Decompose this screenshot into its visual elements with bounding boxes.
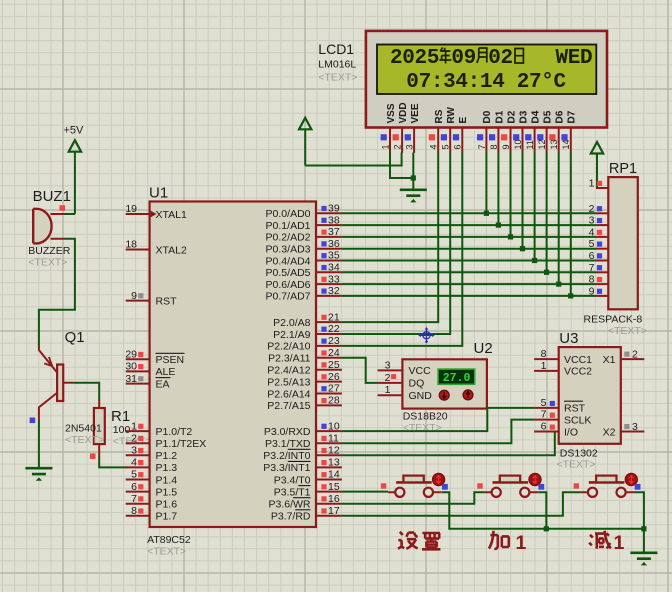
node origin marker	[418, 327, 435, 344]
button MINUS key	[574, 473, 641, 497]
svg-text:RW: RW	[446, 106, 457, 123]
RTC U3 DS1302	[557, 330, 621, 471]
U3 pin 1	[534, 360, 559, 372]
wire P3.6 to key PLUS	[342, 492, 485, 503]
U1 pin 25 P2.4/A12	[267, 359, 342, 377]
U2 up button	[463, 390, 473, 400]
svg-text:D4: D4	[530, 110, 541, 123]
svg-text:8: 8	[489, 144, 499, 149]
svg-text:P2.4/A12: P2.4/A12	[267, 365, 310, 377]
svg-text:30: 30	[125, 361, 137, 373]
svg-text:29: 29	[125, 349, 137, 361]
svg-text:1: 1	[589, 178, 595, 190]
svg-text:+5V: +5V	[64, 125, 85, 137]
svg-text:P0.5/AD5: P0.5/AD5	[266, 267, 311, 279]
U1 pin 8 P1.7	[126, 505, 178, 523]
button SET key	[381, 473, 448, 497]
svg-text:4: 4	[589, 226, 595, 238]
svg-text:5: 5	[541, 397, 547, 409]
svg-text:7: 7	[541, 409, 547, 421]
svg-text:28: 28	[328, 395, 340, 407]
svg-text:ALE: ALE	[156, 366, 176, 378]
svg-text:P3.5/T1: P3.5/T1	[274, 486, 311, 498]
ground (left)	[25, 468, 52, 481]
wire P0.7 to D7/RP1	[342, 153, 596, 299]
svg-text:<TEXT>: <TEXT>	[557, 459, 596, 471]
wire P0.3 to D3/RP1	[342, 153, 596, 252]
U1 pin 38 P0.1/AD1	[266, 214, 342, 232]
svg-text:P1.0/T2: P1.0/T2	[156, 426, 193, 438]
LCD text line2 time	[406, 71, 566, 94]
svg-text:6: 6	[541, 421, 547, 433]
wire P3.5 to key SET	[342, 491, 388, 493]
U1 pin 35 P0.4/AD4	[266, 250, 342, 268]
svg-text:1: 1	[614, 532, 625, 554]
svg-text:P2.0/A8: P2.0/A8	[273, 317, 311, 329]
U1 pin 39 P0.0/AD0	[266, 203, 342, 221]
svg-text:<TEXT>: <TEXT>	[147, 546, 186, 558]
svg-text:6: 6	[589, 250, 595, 262]
svg-text:D6: D6	[555, 110, 566, 123]
wire key MINUS right to ground bus	[635, 492, 647, 553]
wire Q1 collector to ground	[38, 420, 40, 468]
wire LCD VDD to +5V rail	[305, 153, 401, 166]
U2 down button	[439, 390, 449, 400]
U1 pin 5 P1.4	[126, 469, 178, 487]
LCD pin 8 D1	[489, 110, 505, 153]
RP1 pin 9	[589, 285, 609, 297]
wire P3.7 to key MINUS	[342, 492, 581, 516]
svg-text:12: 12	[537, 139, 547, 149]
svg-text:VCC2: VCC2	[564, 366, 592, 378]
svg-text:P0.1/AD1: P0.1/AD1	[266, 220, 311, 232]
RP1 pin 4	[589, 226, 609, 238]
LCD pin 5 RW	[441, 106, 457, 152]
svg-text:2: 2	[385, 372, 391, 384]
U1 pin 37 P0.2/AD2	[266, 226, 342, 244]
svg-text:P0.0/AD0: P0.0/AD0	[266, 208, 311, 220]
U2 pin 1	[378, 384, 403, 396]
svg-text:13: 13	[328, 457, 340, 469]
svg-text:<TEXT>: <TEXT>	[318, 72, 357, 84]
svg-text:5: 5	[441, 144, 451, 149]
svg-text:GND: GND	[409, 390, 433, 402]
wire P3.2 to U3 I/O	[342, 433, 555, 456]
svg-text:P0.3/AD3: P0.3/AD3	[266, 244, 311, 256]
svg-text:21: 21	[328, 311, 340, 323]
svg-text:BUZZER: BUZZER	[28, 245, 70, 257]
U1 pin 23 P2.2/A10	[267, 335, 342, 353]
power +5V (near LCD)	[299, 118, 311, 166]
IC U1 AT89C52	[147, 185, 316, 558]
U2 pin 2	[378, 372, 403, 384]
RP1 pin 1	[589, 178, 609, 190]
svg-text:38: 38	[328, 214, 340, 226]
svg-text:22: 22	[328, 323, 340, 335]
svg-text:26: 26	[328, 371, 340, 383]
resistor pack RP1 RESPACK-8	[584, 161, 648, 337]
U1 pin 9 RST	[126, 290, 177, 308]
svg-text:P3.1/TXD: P3.1/TXD	[265, 438, 311, 450]
svg-text:9: 9	[589, 285, 595, 297]
U1 pin 32 P0.7/AD7	[266, 285, 342, 303]
svg-text:5: 5	[589, 238, 595, 250]
svg-text:<TEXT>: <TEXT>	[28, 257, 67, 269]
ground (under LCD)	[400, 190, 427, 203]
svg-text:18: 18	[125, 239, 137, 251]
svg-text:19: 19	[125, 203, 137, 215]
RP1 pin 8	[589, 274, 609, 286]
svg-text:U3: U3	[559, 330, 578, 347]
svg-text:11: 11	[525, 140, 535, 149]
svg-text:XTAL2: XTAL2	[156, 244, 187, 256]
buzzer BUZ1	[28, 188, 71, 268]
button PLUS key	[477, 473, 544, 497]
svg-text:09: 09	[451, 47, 476, 70]
svg-text:9: 9	[131, 290, 137, 302]
U1 pin 34 P0.5/AD5	[266, 262, 342, 280]
svg-text:7: 7	[477, 144, 487, 149]
wire P3.0 to U3 RST	[342, 408, 534, 431]
svg-text:P3.0/RXD: P3.0/RXD	[264, 426, 311, 438]
svg-text:1: 1	[541, 360, 547, 372]
svg-text:37: 37	[328, 226, 340, 238]
svg-text:3: 3	[632, 421, 638, 433]
svg-text:P2.5/A13: P2.5/A13	[267, 376, 310, 388]
svg-text:1: 1	[385, 384, 391, 396]
LCD pin 10 D3	[513, 110, 529, 153]
svg-text:1: 1	[516, 532, 527, 554]
LCD pin 7 D0	[477, 110, 493, 153]
svg-text:P1.6: P1.6	[156, 499, 178, 511]
wire P0.5 to D5/RP1	[342, 153, 596, 275]
svg-text:D0: D0	[482, 110, 493, 123]
U3 pin 2	[621, 349, 645, 361]
svg-text:P1.2: P1.2	[156, 450, 178, 462]
U1 pin 16 P3.6/WR	[268, 493, 341, 511]
svg-text:P2.7/A15: P2.7/A15	[267, 400, 310, 412]
svg-text:17: 17	[328, 505, 340, 517]
LCD pin 11 D4	[525, 110, 541, 153]
U1 pin 19 XTAL1	[125, 203, 187, 221]
U1 pin 17 P3.7/RD	[271, 505, 342, 523]
U3 pin 6	[534, 421, 559, 433]
U1 pin 15 P3.5/T1	[274, 481, 342, 499]
svg-text:2: 2	[589, 203, 595, 215]
U3 pin 3	[621, 421, 645, 433]
svg-text:DS1302: DS1302	[560, 447, 598, 459]
svg-text:31: 31	[125, 373, 137, 385]
svg-text:D7: D7	[567, 110, 578, 123]
svg-text:1: 1	[380, 144, 390, 149]
U1 pin 7 P1.6	[126, 493, 178, 511]
svg-text:X1: X1	[603, 354, 616, 366]
LCD pin 2 VDD	[392, 102, 408, 152]
svg-text:AT89C52: AT89C52	[147, 534, 191, 546]
U1 pin 28 P2.7/A15	[267, 395, 342, 413]
svg-text:XTAL1: XTAL1	[156, 209, 187, 221]
wire P0.0 to D0/RP1	[342, 153, 596, 216]
svg-text:P1.1/T2EX: P1.1/T2EX	[156, 438, 207, 450]
svg-text:10: 10	[328, 420, 340, 432]
svg-text:P1.5: P1.5	[156, 486, 178, 498]
svg-text:7: 7	[131, 493, 137, 505]
U2 temperature display 27.0	[438, 369, 475, 385]
wire E to P2.2	[342, 153, 462, 346]
svg-text:P2.6/A14: P2.6/A14	[267, 388, 310, 400]
RP1 pin 7	[589, 262, 609, 274]
svg-text:8: 8	[131, 505, 137, 517]
svg-text:10: 10	[513, 139, 523, 149]
svg-text:14: 14	[328, 469, 340, 481]
svg-text:4: 4	[131, 457, 137, 469]
svg-text:P0.4/AD4: P0.4/AD4	[266, 255, 311, 267]
U1 pin 27 P2.6/A14	[267, 383, 342, 401]
svg-text:34: 34	[328, 262, 340, 274]
wire +5V to BUZ1 top	[65, 152, 75, 214]
U1 pin 26 P2.5/A13	[267, 371, 342, 389]
svg-text:Q1: Q1	[65, 329, 85, 346]
svg-text:2025: 2025	[390, 47, 439, 70]
svg-text:16: 16	[328, 493, 340, 505]
U2 pin 3	[378, 359, 403, 371]
wire RS to P2.0	[342, 153, 438, 323]
U1 pin 33 P0.6/AD6	[266, 273, 342, 291]
LCD text line1 date	[390, 47, 592, 70]
svg-text:RESPACK-8: RESPACK-8	[584, 314, 643, 326]
svg-text:100: 100	[113, 424, 131, 436]
svg-text:DS18B20: DS18B20	[403, 411, 448, 423]
LCD pin 13 D6	[549, 110, 565, 153]
svg-text:3: 3	[131, 445, 137, 457]
LCD LCD1 LM016L	[318, 31, 607, 128]
svg-text:6: 6	[131, 481, 137, 493]
LCD pin 6 E	[453, 117, 469, 153]
svg-text:25: 25	[328, 359, 340, 371]
svg-text:07:34:14 27°C: 07:34:14 27°C	[406, 71, 566, 94]
ground (bottom right)	[630, 553, 657, 566]
svg-text:P2.3/A11: P2.3/A11	[268, 353, 311, 365]
resistor R1 100	[90, 399, 152, 459]
label JIAN 1 (minus 1)	[589, 531, 611, 549]
svg-text:4: 4	[429, 144, 439, 149]
U1 pin 31 EA	[125, 373, 170, 391]
svg-text:3: 3	[589, 215, 595, 227]
wire R1 bottom to U1 P1.3	[99, 457, 128, 468]
svg-text:P1.3: P1.3	[156, 462, 178, 474]
svg-text:D1: D1	[494, 110, 505, 123]
U1 pin 22 P2.1/A9	[273, 323, 342, 341]
svg-text:23: 23	[328, 335, 340, 347]
svg-text:U2: U2	[474, 340, 493, 357]
svg-text:LCD1: LCD1	[318, 41, 354, 57]
wire key SET right to ground bus	[442, 492, 644, 529]
svg-text:WED: WED	[556, 47, 593, 70]
svg-text:<TEXT>: <TEXT>	[65, 434, 104, 446]
LCD pin 9 D2	[501, 110, 517, 153]
svg-text:33: 33	[328, 273, 340, 285]
svg-text:<TEXT>: <TEXT>	[608, 325, 647, 337]
U1 pin 11 P3.1/TXD	[265, 432, 342, 450]
U1 pin 18 XTAL2	[125, 239, 187, 257]
svg-text:02: 02	[488, 47, 513, 70]
RP1 pin 3	[589, 215, 609, 227]
svg-text:P0.6/AD6: P0.6/AD6	[266, 279, 311, 291]
svg-text:15: 15	[328, 481, 340, 493]
wire P2.3 to U2 DQ	[342, 358, 378, 383]
svg-text:P2.1/A9: P2.1/A9	[273, 329, 311, 341]
svg-text:36: 36	[328, 238, 340, 250]
svg-text:P3.2/INT0: P3.2/INT0	[263, 450, 310, 462]
svg-text:SCLK: SCLK	[564, 414, 591, 426]
svg-text:5: 5	[131, 469, 137, 481]
svg-text:RST: RST	[156, 295, 178, 307]
svg-text:P1.7: P1.7	[156, 511, 178, 523]
U1 pin 2 P1.1/T2EX	[126, 432, 207, 450]
svg-text:BUZ1: BUZ1	[33, 188, 71, 205]
wire P0.6 to D6/RP1	[342, 153, 596, 287]
svg-text:12: 12	[328, 445, 340, 457]
svg-text:RP1: RP1	[609, 161, 637, 177]
node VSS/VEE junction	[411, 175, 416, 180]
label JIA 1 (plus 1)	[489, 531, 509, 549]
svg-text:39: 39	[328, 203, 340, 215]
U3 pin 8	[534, 348, 559, 360]
svg-text:VDD: VDD	[398, 102, 409, 123]
svg-text:RST: RST	[564, 403, 586, 415]
svg-text:P0.2/AD2: P0.2/AD2	[266, 232, 311, 244]
svg-text:8: 8	[589, 274, 595, 286]
LCD pin 14 D7	[561, 110, 577, 153]
svg-text:13: 13	[549, 139, 559, 149]
svg-text:14: 14	[561, 139, 571, 149]
svg-text:VEE: VEE	[410, 103, 421, 123]
power +5V	[64, 125, 85, 152]
svg-text:7: 7	[589, 262, 595, 274]
svg-text:9: 9	[501, 144, 511, 149]
svg-text:P3.6/WR: P3.6/WR	[268, 499, 310, 511]
wire P0.2 to D2/RP1	[342, 153, 596, 240]
svg-text:D3: D3	[518, 110, 529, 123]
sensor U2 DS18B20	[402, 340, 492, 434]
U1 pin 21 P2.0/A8	[273, 311, 342, 329]
U3 pin 7	[534, 409, 559, 421]
U1 pin 12 P3.2/INT0	[263, 445, 342, 463]
power +5V (RP1)	[591, 142, 603, 188]
U1 pin 13 P3.3/INT1	[263, 457, 342, 475]
RP1 pin 5	[589, 238, 609, 250]
LCD pin 1 VSS	[380, 103, 396, 153]
LCD pin 3 VEE	[405, 103, 421, 153]
svg-text:3: 3	[405, 144, 415, 149]
wire P3.1 to U3 SCLK	[342, 420, 534, 444]
U1 pin 14 P3.4/T0	[274, 469, 342, 487]
svg-text:DQ: DQ	[409, 378, 425, 390]
U1 pin 24 P2.3/A11	[268, 347, 342, 365]
svg-text:VCC: VCC	[409, 365, 432, 377]
U1 pin 29 PSEN	[125, 349, 184, 367]
U1 pin 30 ALE	[125, 361, 175, 379]
svg-text:P3.7/RD: P3.7/RD	[271, 511, 311, 523]
svg-text:P1.4: P1.4	[156, 474, 178, 486]
svg-text:D2: D2	[506, 110, 517, 123]
svg-text:2N5401: 2N5401	[65, 423, 102, 435]
svg-text:11: 11	[328, 432, 339, 444]
U1 pin 4 P1.3	[126, 457, 178, 475]
svg-text:PSEN: PSEN	[156, 354, 185, 366]
U1 pin 10 P3.0/RXD	[264, 420, 342, 438]
svg-text:P2.2/A10: P2.2/A10	[267, 341, 310, 353]
svg-text:P3.3/INT1: P3.3/INT1	[263, 462, 310, 474]
svg-text:2: 2	[131, 432, 137, 444]
label SHEZHI (settings)	[398, 532, 440, 550]
svg-text:VCC1: VCC1	[564, 354, 592, 366]
svg-text:35: 35	[328, 250, 340, 262]
svg-text:X2: X2	[603, 426, 616, 438]
svg-text:EA: EA	[156, 378, 170, 390]
svg-text:8: 8	[541, 348, 547, 360]
svg-text:<TEXT>: <TEXT>	[403, 422, 442, 434]
svg-text:RS: RS	[434, 109, 445, 123]
transistor Q1 2N5401	[30, 329, 105, 446]
svg-text:27.0: 27.0	[443, 372, 471, 385]
wire LCD VSS to ground	[390, 153, 412, 179]
U1 pin 3 P1.2	[126, 445, 178, 463]
svg-text:2: 2	[632, 349, 638, 361]
LCD pin 12 D5	[537, 110, 553, 153]
svg-text:6: 6	[453, 144, 463, 149]
wire P0.4 to D4/RP1	[342, 153, 596, 264]
wire P0.1 to D1/RP1	[342, 153, 596, 228]
LCD pin 4 RS	[429, 109, 445, 153]
wire key PLUS right to ground bus	[538, 492, 549, 531]
U1 pin 6 P1.5	[126, 481, 178, 499]
svg-text:E: E	[458, 117, 469, 124]
svg-text:R1: R1	[111, 408, 130, 425]
svg-text:3: 3	[385, 359, 391, 371]
svg-text:U1: U1	[149, 185, 168, 202]
RP1 pin 2	[589, 203, 609, 215]
RP1 pin 6	[589, 250, 609, 262]
wire RW to P2.1	[342, 153, 450, 335]
svg-text:32: 32	[328, 285, 340, 297]
svg-text:P0.7/AD7: P0.7/AD7	[266, 291, 311, 303]
svg-text:I/O: I/O	[564, 426, 578, 438]
svg-text:VSS: VSS	[386, 103, 397, 123]
svg-text:1: 1	[131, 420, 137, 432]
U1 pin 36 P0.3/AD3	[266, 238, 342, 256]
wire BUZ1 bottom to Q1 emitter	[39, 239, 75, 347]
U3 pin 5	[534, 397, 559, 409]
svg-text:24: 24	[328, 347, 340, 359]
svg-text:P3.4/T0: P3.4/T0	[274, 474, 311, 486]
svg-text:2: 2	[392, 144, 402, 149]
svg-text:D5: D5	[542, 110, 553, 123]
wire Q1 base to R1 top	[74, 383, 100, 400]
svg-text:LM016L: LM016L	[318, 59, 356, 71]
wire LCD VEE down	[412, 153, 414, 189]
U1 pin 1 P1.0/T2	[126, 420, 193, 438]
svg-text:27: 27	[328, 383, 340, 395]
